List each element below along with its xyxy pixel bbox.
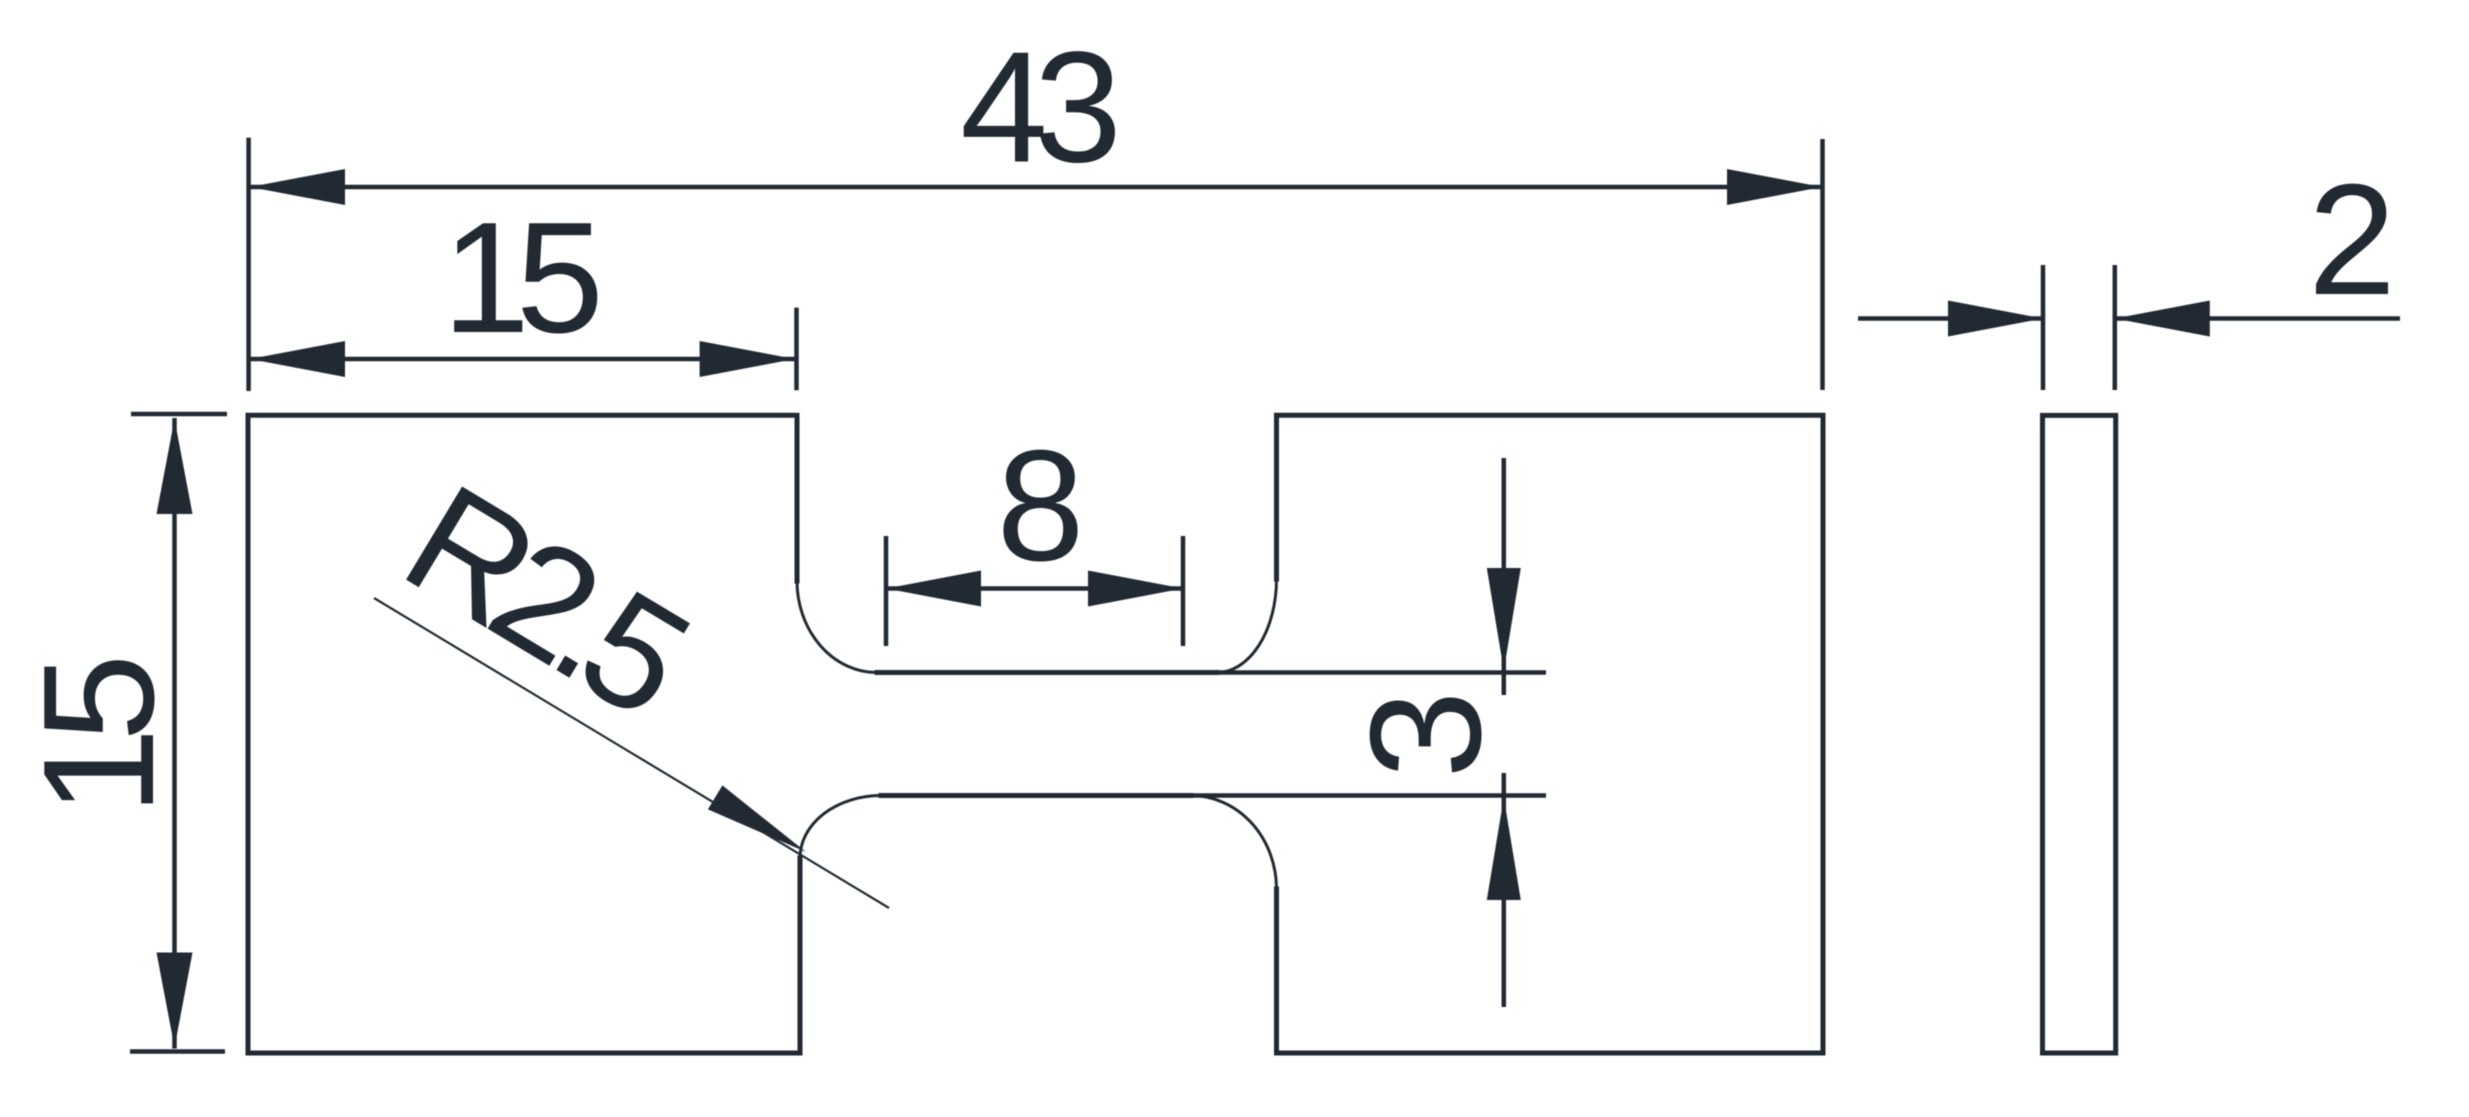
- dimension line 43: [250, 185, 1822, 190]
- dimension line 3 upper: [1502, 458, 1507, 695]
- extension ticks of 8: [886, 536, 1183, 646]
- arrow 15 top-right: [700, 341, 795, 377]
- dimension line 15 (vertical): [172, 418, 177, 1049]
- leader line R2.5: [374, 598, 889, 908]
- dimension line 15 (top): [250, 357, 795, 362]
- extension line left (shared 43/15): [246, 138, 251, 391]
- dimension line 2 right part: [2115, 316, 2400, 321]
- arrow R2.5 leader: [708, 785, 806, 852]
- arrow 8 left: [886, 571, 981, 607]
- side view rectangle (thickness 2): [2043, 415, 2116, 1053]
- extension line right of 43: [1820, 139, 1825, 390]
- svg-text:8: 8: [997, 418, 1085, 594]
- specimen outline (dog-bone front view): [248, 415, 1823, 1053]
- fillet R2.5 arc top-left: [797, 581, 877, 673]
- dimension lines and extension lines: [130, 138, 2400, 1052]
- svg-text:15: 15: [442, 190, 598, 366]
- dimension texts: [11, 20, 2396, 816]
- svg-text:43: 43: [960, 20, 1115, 196]
- tick top of vertical 15: [131, 412, 227, 417]
- arrow 3 up (bottom): [1487, 798, 1521, 901]
- svg-text:3: 3: [1338, 691, 1514, 779]
- arrowheads: [157, 169, 2210, 1048]
- extension lines of 3: [1193, 673, 1546, 796]
- dimension line 8: [886, 586, 1183, 591]
- arrow 2 right (points left): [2115, 301, 2210, 337]
- fillet R2.5 arc top-right: [1217, 579, 1277, 673]
- dimension line 3 lower: [1502, 773, 1507, 1007]
- fillet R2.5 arc bottom-right: [1191, 796, 1277, 890]
- tick bottom of vertical 15: [130, 1049, 225, 1054]
- extension lines of 2: [2043, 265, 2115, 390]
- arrow 43 right: [1727, 169, 1822, 205]
- arrow 43 left: [250, 169, 345, 205]
- wire: straight outline segments: [248, 415, 1823, 1053]
- extension line right of 15: [794, 308, 799, 391]
- arrow 3 down (top): [1487, 568, 1521, 671]
- arrow 8 right: [1088, 571, 1183, 607]
- fillet R2.5 arc bottom-left: [800, 796, 881, 859]
- dimension line 2 left part: [1858, 316, 2043, 321]
- svg-text:15: 15: [11, 660, 187, 816]
- arrow 15 vertical top: [157, 419, 193, 514]
- arrow 15 vertical bottom: [157, 953, 193, 1048]
- arrow 2 left (points right): [1948, 301, 2043, 337]
- svg-text:2: 2: [2308, 152, 2396, 328]
- arrow 15 top-left: [250, 341, 345, 377]
